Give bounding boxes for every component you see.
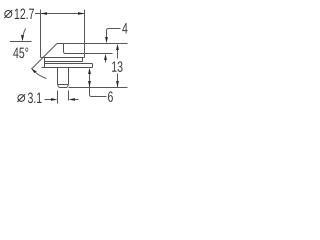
dim4 down arrowhead	[105, 37, 108, 43]
boss right edge	[82, 58, 84, 62]
dia3.1 left arrow tail	[45, 99, 52, 101]
part step edge (rounded corner)	[64, 44, 66, 54]
dia12.7 diameter symbol	[5, 11, 12, 18]
flange top line	[45, 63, 93, 65]
dia3.1 right-pointing arrowhead	[51, 98, 58, 101]
dim4 up arrowhead	[104, 54, 107, 60]
dim13 bottom extension line	[69, 87, 128, 89]
label 3.1	[28, 93, 42, 104]
dim6 down arrowhead	[88, 81, 91, 87]
dim13 up arrowhead	[116, 44, 119, 50]
dia3.1 left extension line	[57, 91, 59, 104]
angle45 horizontal reference line	[10, 41, 32, 43]
angle45 lower arrowhead	[31, 68, 37, 73]
dia3.1 right extension line	[68, 91, 70, 101]
dia12.7 right arrowhead	[78, 12, 85, 15]
dim4 bottom extension line	[85, 53, 113, 55]
label 6	[108, 91, 113, 102]
stem chamfer chord	[58, 84, 69, 86]
angle45 upper arrowhead	[21, 35, 24, 41]
part chamfer 45deg	[43, 44, 57, 58]
dia3.1 left-pointing arrowhead	[69, 98, 76, 101]
dia3.1 diameter symbol	[18, 95, 25, 102]
angle45 arc upper segment	[22, 29, 25, 41]
label 13	[112, 61, 122, 72]
part top face	[57, 43, 64, 45]
angle45 arc lower segment	[36, 73, 47, 79]
dia12.7 dimension line	[35, 13, 85, 15]
dim4 bent leader	[107, 29, 121, 38]
stem bottom face	[60, 87, 67, 89]
dim13 down arrowhead	[116, 81, 119, 87]
part head bottom	[41, 57, 85, 59]
flange bottom line	[42, 67, 93, 69]
dia12.7 left extension line	[40, 10, 42, 58]
boss left edge	[44, 58, 46, 68]
boss bottom line	[45, 61, 83, 63]
stem bottom right corner	[67, 84, 69, 88]
stem bottom left corner	[58, 84, 60, 88]
dim13 lower line	[117, 74, 119, 88]
dim6 dimension line with jog leader	[90, 74, 107, 97]
dim4 top extension line	[64, 43, 128, 45]
dim4 lower arrow stem	[105, 60, 107, 63]
flange right edge	[92, 64, 94, 68]
label 45°	[13, 48, 28, 59]
label 12.7	[15, 9, 34, 19]
part head right edge	[84, 54, 86, 58]
dim13 upper line	[117, 50, 119, 59]
dia3.1 right arrow tail	[75, 99, 79, 101]
dia12.7 left arrowhead	[41, 12, 48, 15]
stem left side	[57, 68, 59, 84]
angle45 chamfer extension line	[32, 58, 44, 70]
stem right side	[68, 68, 70, 84]
dim6 up arrowhead	[88, 68, 91, 74]
dia12.7 right extension line	[84, 10, 86, 54]
part step face	[66, 53, 85, 55]
label 4	[122, 23, 127, 33]
